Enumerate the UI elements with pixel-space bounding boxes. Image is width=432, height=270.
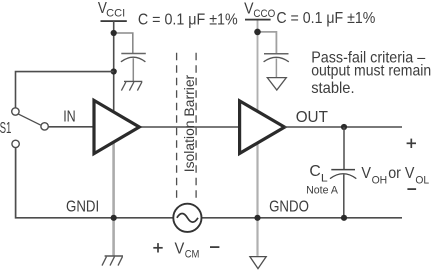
power rail VCCO bar <box>245 19 271 21</box>
isolation barrier dashed line left <box>176 53 178 199</box>
wire CL top lead <box>343 127 345 170</box>
junction GNDO rail <box>254 215 260 221</box>
wire C1 branch <box>114 33 133 53</box>
wire S1 bottom pole to GNDI rail <box>16 148 402 218</box>
svg-text:S1: S1 <box>0 120 11 137</box>
terminal minus <box>407 188 416 190</box>
ground chassis GNDI <box>102 256 123 266</box>
svg-text:V: V <box>175 241 185 258</box>
ground chassis for C1 <box>121 81 142 90</box>
wire VCCO vertical <box>257 21 259 112</box>
source VCM <box>173 204 201 232</box>
label VCM minus <box>210 246 219 248</box>
wire junction to switch S1 <box>16 72 114 108</box>
svg-text:CCI: CCI <box>106 8 125 20</box>
buffer U2 <box>240 101 285 153</box>
svg-text:output must remain: output must remain <box>311 62 431 79</box>
svg-text:CM: CM <box>185 248 200 260</box>
svg-text:or V: or V <box>388 165 414 182</box>
svg-text:C = 0.1 μF ±1%: C = 0.1 μF ±1% <box>138 12 238 29</box>
junction VCCO-C2 <box>254 29 261 36</box>
svg-text:Isolation Barrier: Isolation Barrier <box>182 74 197 172</box>
svg-text:IN: IN <box>63 109 75 126</box>
label VCM plus <box>153 243 162 252</box>
wire OUT <box>285 126 402 128</box>
ground signal for C2 <box>267 78 286 90</box>
svg-text:OL: OL <box>415 175 429 187</box>
svg-text:C = 0.1 μF ±1%: C = 0.1 μF ±1% <box>276 10 375 27</box>
svg-text:V: V <box>361 165 371 182</box>
capacitor CL <box>330 170 356 218</box>
ground signal GNDO <box>250 257 266 269</box>
buffer U1 <box>94 100 139 153</box>
wire IN <box>48 126 92 128</box>
junction VCCI-S1 <box>111 68 117 74</box>
svg-text:L: L <box>321 173 328 185</box>
svg-text:GNDO: GNDO <box>269 199 309 216</box>
svg-text:GNDI: GNDI <box>66 199 99 216</box>
switch S1 <box>12 108 49 148</box>
power rail VCCI bar <box>101 20 127 22</box>
wire C2 branch <box>258 32 277 54</box>
svg-text:CCO: CCO <box>253 8 275 20</box>
wire VCCI vertical <box>113 21 115 111</box>
wire U1 ground stub to GNDI <box>112 143 115 256</box>
wire U2 ground stub to GNDO <box>256 143 258 256</box>
note pass-fail criteria <box>311 49 431 97</box>
junction VCCI-C1 <box>111 30 117 36</box>
wire U1 output through barrier to U2 <box>139 126 238 128</box>
junction OUT node <box>341 124 347 130</box>
terminal plus <box>407 139 416 148</box>
capacitor C2 <box>264 54 289 78</box>
svg-text:stable.: stable. <box>311 80 354 97</box>
svg-text:Note A: Note A <box>306 185 338 197</box>
svg-text:C: C <box>309 163 320 180</box>
capacitor C1 <box>121 54 146 82</box>
svg-text:V: V <box>244 0 254 17</box>
junction CL bottom rail <box>341 215 347 221</box>
isolation barrier dashed line right <box>195 53 197 199</box>
svg-text:OH: OH <box>372 175 388 187</box>
svg-text:OUT: OUT <box>296 109 328 126</box>
junction GNDI rail <box>111 215 117 221</box>
